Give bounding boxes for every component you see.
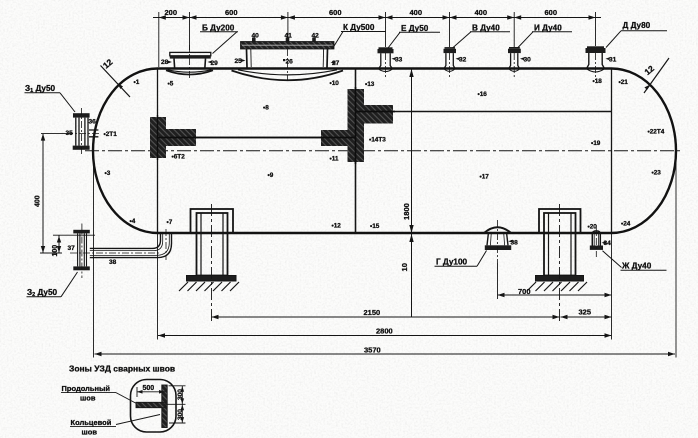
Z2 Du50 label (27, 272, 78, 298)
vessel shell top line (158, 67, 612, 69)
nozzle name labels with leaders (202, 21, 651, 33)
vessel left elliptical head (93, 69, 158, 234)
weld seam longitudinal left course (158, 137, 356, 139)
detail dims 300/300 (166, 386, 186, 423)
scattered item point labels (104, 78, 665, 231)
G Du100 label (435, 251, 487, 267)
UZD hatched zone left of middle seam on longitudinal seam (321, 130, 348, 146)
nozzle G Du100 (item 38) bottom (484, 220, 511, 263)
detail circumferential seam strip (162, 385, 167, 428)
top dimension chain line (153, 12, 601, 67)
bottom dim 2800 (158, 327, 612, 338)
top dimension labels (165, 8, 558, 17)
weld seam vertical middle (355, 69, 357, 234)
detail inset blob (131, 380, 177, 433)
manhole K Du500 (items 25/26/27) (232, 38, 344, 81)
UZD hatched zone right of middle seam on longitudinal seam (356, 105, 393, 124)
drain pipe with elbow (item 38) (70, 229, 172, 260)
nozzle B Du200 (item 28/29) (166, 45, 213, 79)
vertical dim 400 left (35, 134, 74, 253)
item number labels with small arrows (top nozzles) (161, 33, 617, 67)
nozzle E Du50 (item 33) (378, 47, 394, 77)
UZD hatched zone on left circumferential seam (150, 117, 166, 158)
Z1 Du50 label (25, 84, 76, 112)
detail longitudinal seam strip (136, 402, 165, 407)
nozzle I Du40 (item 30) (508, 47, 521, 77)
nozzle Z2 Du50 flange (item 37) (73, 224, 90, 279)
right saddle support (527, 204, 587, 322)
Zh Du40 label (603, 251, 667, 271)
item 38 arrow / 34 arrow (508, 240, 606, 245)
12 thickness arrow right head (642, 58, 669, 93)
top dimension arrowheads (159, 15, 596, 19)
studs 40 41 42 (252, 38, 256, 42)
vessel right elliptical head (612, 69, 677, 234)
weld seam vertical left (head junction) (157, 69, 159, 234)
detail dim 500 (137, 385, 165, 397)
detail labels (61, 384, 160, 437)
bottom dim 700 (498, 287, 612, 297)
vessel shell bottom line (158, 232, 612, 234)
left saddle support (179, 204, 239, 322)
nozzle V Du40 (item 32) (444, 47, 457, 77)
weld seam longitudinal right course (356, 111, 612, 113)
nozzle Z1 Du50 (items 35/36) on left head (66, 108, 101, 155)
nozzle D Du80 (item 31) (586, 46, 606, 80)
weld seam lines re-stroked over hatch (158, 87, 396, 164)
12 thickness arrow left head (101, 57, 131, 97)
bottom dim 325 (561, 308, 612, 320)
UZD hatched zone right of left seam on longitudinal seam (166, 129, 196, 146)
weld seam vertical right (head junction) (611, 69, 613, 234)
vertical dim 1800 (400, 69, 414, 318)
vertical dim 100 left (52, 235, 95, 256)
nozzle Zh Du40 (item 34) bottom (590, 225, 603, 257)
extension lines bottom (94, 151, 677, 358)
vessel horizontal centerline (85, 150, 683, 152)
UZD hatched zone on middle circumferential seam (348, 89, 365, 162)
bottom dim 3570 (95, 346, 676, 357)
bottom dim 2150 (212, 308, 560, 319)
